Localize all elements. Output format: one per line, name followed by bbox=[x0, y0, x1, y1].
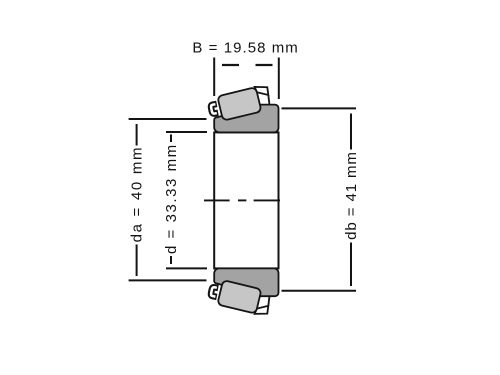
db extension line top bbox=[282, 107, 357, 109]
svg-text:da = 40 mm: da = 40 mm bbox=[129, 146, 146, 243]
top cage hook (left) bbox=[211, 104, 219, 114]
svg-text:B = 19.58 mm: B = 19.58 mm bbox=[192, 40, 298, 57]
centerline (axis) bbox=[204, 199, 280, 201]
d dimension tick top bbox=[170, 134, 172, 142]
bottom cage hook bbox=[211, 287, 219, 297]
da extension line bottom bbox=[129, 279, 207, 281]
db extension line bottom bbox=[282, 290, 357, 292]
inner ring rectangle bbox=[214, 132, 278, 268]
top cage tail (right) bbox=[268, 95, 269, 104]
bottom cage tab bbox=[255, 306, 269, 314]
top cage tab (right) bbox=[255, 87, 269, 95]
da dimension line lower segment bbox=[136, 245, 138, 277]
top outer race bbox=[214, 105, 278, 133]
bottom outer race bbox=[214, 268, 278, 296]
bottom assembly (mirror of top) bbox=[211, 268, 279, 314]
d dimension tick bottom bbox=[170, 256, 172, 264]
db dimension line lower segment bbox=[350, 243, 352, 287]
svg-text:d = 33.33 mm: d = 33.33 mm bbox=[163, 143, 180, 254]
d extension line top bbox=[166, 131, 207, 133]
B dimension dash left bbox=[222, 64, 239, 66]
da dimension line upper segment bbox=[136, 124, 138, 146]
svg-text:db = 41 mm: db = 41 mm bbox=[343, 151, 360, 240]
d extension line bottom bbox=[166, 267, 207, 269]
B dimension dash right bbox=[256, 64, 273, 66]
db dimension line upper segment bbox=[350, 114, 352, 150]
B dimension extension line left bbox=[213, 58, 215, 97]
da extension line top bbox=[129, 118, 207, 120]
bottom cage tail bbox=[268, 297, 269, 306]
B dimension extension line right bbox=[278, 58, 280, 100]
top roller bbox=[217, 87, 261, 121]
bottom roller bbox=[217, 280, 261, 314]
